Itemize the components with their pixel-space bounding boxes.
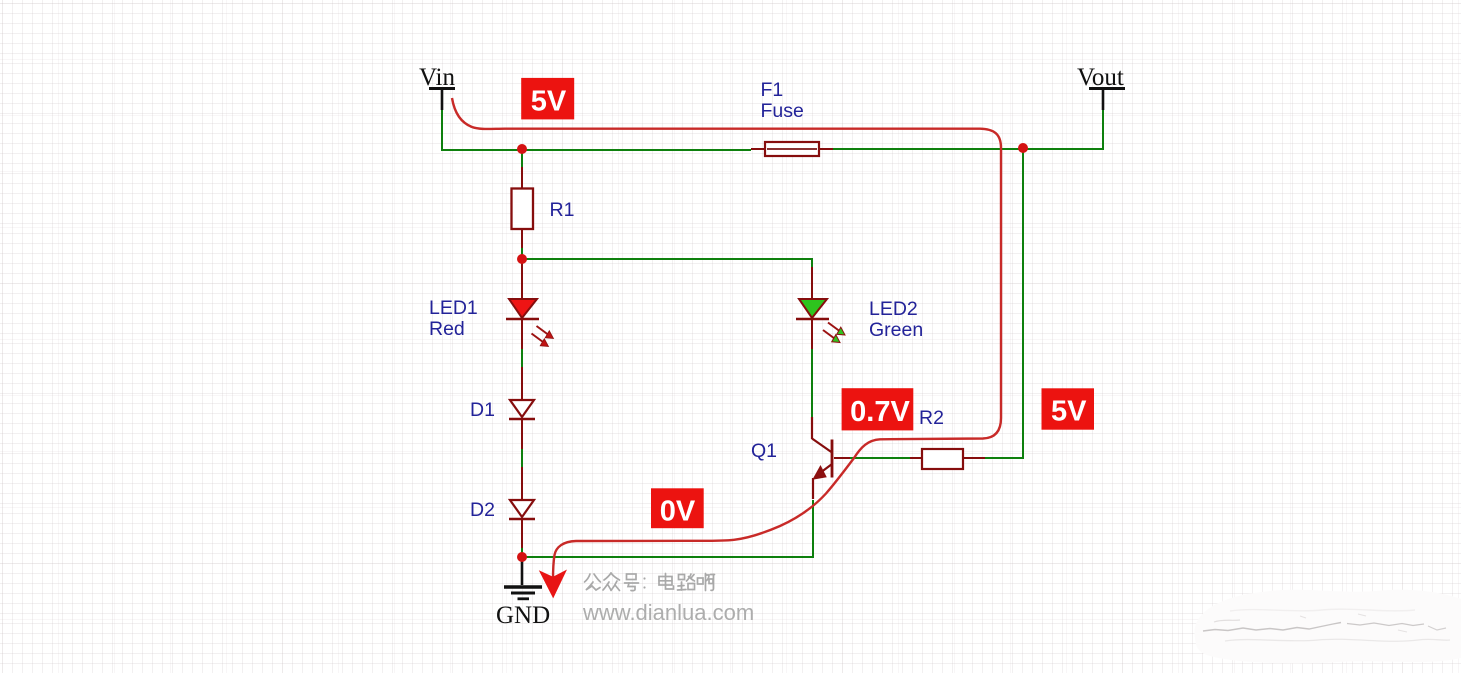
svg-text:Q1: Q1 [751, 440, 777, 462]
svg-text:Fuse: Fuse [761, 100, 804, 122]
svg-text:0.7V: 0.7V [850, 396, 910, 428]
svg-text:5V: 5V [1051, 395, 1087, 427]
svg-text:D1: D1 [470, 399, 495, 421]
svg-text:5V: 5V [531, 85, 567, 117]
svg-text:www.dianlua.com: www.dianlua.com [582, 600, 754, 625]
svg-text:D2: D2 [470, 499, 495, 521]
svg-text:Vout: Vout [1077, 64, 1124, 91]
svg-text:R2: R2 [919, 407, 944, 429]
svg-text:GND: GND [496, 602, 550, 629]
svg-text:Red: Red [429, 318, 465, 340]
svg-text:LED2: LED2 [869, 298, 918, 320]
svg-text:Green: Green [869, 319, 923, 341]
svg-text:Vin: Vin [419, 64, 455, 91]
svg-text:LED1: LED1 [429, 297, 478, 319]
svg-text:R1: R1 [550, 199, 575, 221]
svg-text:F1: F1 [761, 79, 784, 101]
svg-text:0V: 0V [660, 496, 696, 528]
